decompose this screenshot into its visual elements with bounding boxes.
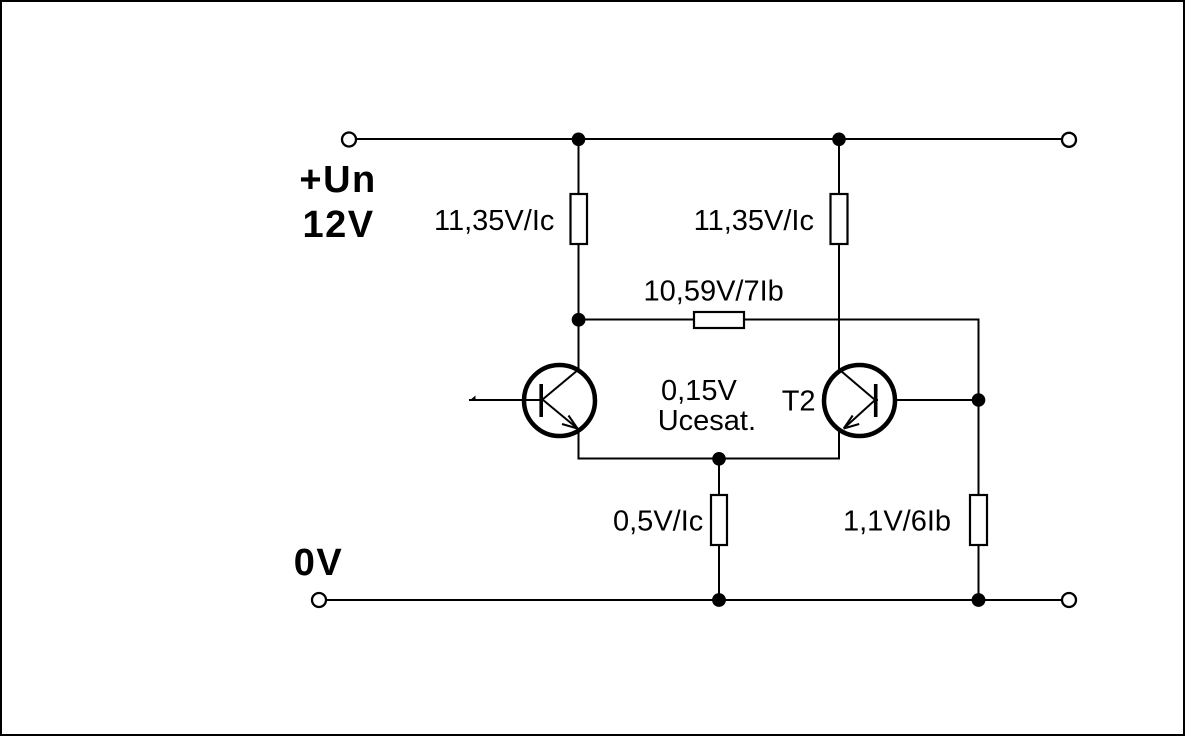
svg-text:11,35V/Ic: 11,35V/Ic: [434, 205, 554, 237]
svg-text:12V: 12V: [303, 204, 375, 246]
svg-text:Ucesat.: Ucesat.: [658, 405, 756, 437]
svg-text:0V: 0V: [294, 542, 343, 584]
svg-text:11,35V/Ic: 11,35V/Ic: [694, 205, 814, 237]
svg-text:0,5V/Ic: 0,5V/Ic: [613, 506, 703, 538]
svg-text:+Un: +Un: [299, 159, 376, 201]
svg-text:10,59V/7Ib: 10,59V/7Ib: [644, 276, 784, 308]
svg-text:1,1V/6Ib: 1,1V/6Ib: [843, 506, 951, 538]
svg-text:0,15V: 0,15V: [661, 375, 737, 407]
svg-text:T2: T2: [782, 386, 816, 418]
